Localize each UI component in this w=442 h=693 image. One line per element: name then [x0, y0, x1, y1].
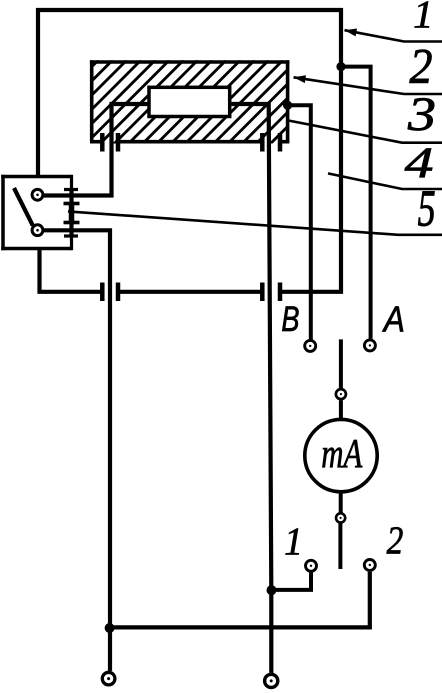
switch box S: top edge: [1, 175, 71, 179]
svg-text:5: 5: [418, 179, 436, 237]
connector plug 5: bottom bar: [64, 221, 80, 225]
callout arrow 1: [345, 29, 358, 37]
heater block 2: hatched body: [14, 60, 368, 145]
wire: right electrode from sample down to bottom terminal: [232, 104, 272, 674]
svg-text:A: A: [382, 300, 405, 340]
junction dot bottom left: [105, 623, 115, 633]
wire: into meter: [339, 400, 343, 419]
svg-text:1: 1: [413, 0, 433, 36]
switch lever: [14, 188, 33, 226]
svg-text:2: 2: [387, 519, 404, 562]
wire: terminal 2 down and bottom horizontal: [110, 572, 370, 628]
callout leader 1: [345, 30, 442, 41]
heater block 2: left edge: [90, 60, 94, 141]
wire: branch from frame to terminal A: [341, 67, 371, 339]
block bottom feedthrough tick, left pair right plate: [116, 133, 121, 152]
switch lower contact: [32, 225, 43, 236]
wire: main loop top (left vertical, top horizontal, right vertical down to bottom bus corner): [38, 10, 341, 292]
heater block 2: bottom edge middle segment: [120, 140, 260, 144]
connector tick left pair, right plate: [116, 283, 121, 302]
svg-text:2: 2: [410, 39, 433, 94]
connector tick right pair, right plate: [278, 283, 283, 302]
heater block 2: right edge: [286, 60, 290, 141]
wire: left electrode from sample through switch upper contact: [44, 104, 149, 196]
switch box S: right edge top piece: [70, 175, 73, 190]
callout leader 5: [68, 211, 442, 234]
switch box S: bottom edge: [1, 247, 71, 251]
svg-text:1: 1: [284, 520, 303, 563]
terminal B circle: [305, 340, 316, 351]
bottom left terminal: [102, 672, 115, 685]
milliammeter mA: [305, 419, 377, 491]
wire: milliammeter probe upper: [339, 339, 343, 388]
switch box S: feedthrough tick lower: [69, 223, 73, 237]
callout arrow 2: [294, 75, 307, 83]
connector tick left pair, left plate: [100, 283, 105, 302]
wire: switch lower contact down to bottom-left terminal: [44, 230, 110, 671]
heater block 2: top edge: [90, 60, 290, 64]
svg-text:mA: mA: [321, 431, 363, 476]
switch box S: feedthrough tick upper: [69, 190, 73, 204]
wire: branch from block edge to terminal B: [288, 105, 311, 339]
junction dot on block right edge: [283, 101, 292, 110]
junction dot terminal1 branch: [267, 585, 277, 595]
switch upper contact: [32, 189, 43, 200]
callout leader 4: [328, 173, 442, 189]
sample 3: white rectangle inside block: [149, 87, 230, 116]
connector plug 5: stem: [69, 204, 75, 223]
probe connector circle lower: [336, 513, 345, 522]
wire: bottom bus middle segment: [120, 290, 262, 294]
block bottom feedthrough tick, left pair left plate: [100, 133, 105, 152]
junction dot on right frame wire: [336, 62, 345, 71]
switch box S: right edge bar upper: [64, 188, 78, 191]
wire: out of meter: [339, 492, 343, 513]
block bottom feedthrough tick, right pair left plate: [260, 133, 265, 152]
svg-text:B: B: [281, 298, 299, 338]
terminal 2 circle: [364, 560, 375, 571]
connector tick right pair, left plate: [260, 283, 265, 302]
bottom right terminal: [265, 674, 278, 687]
terminal 1 circle: [306, 560, 317, 571]
wire: terminal 1 to left electrode wire: [273, 573, 312, 590]
heater block 2: bottom edge left stub: [90, 140, 100, 144]
probe connector circle upper: [336, 389, 346, 399]
callout leader 2: [294, 77, 442, 94]
wire: bottom bus left segment with corner up to switch box: [40, 249, 102, 292]
switch box S: right edge bar lower: [64, 234, 78, 237]
callout leader 3: [289, 121, 442, 143]
svg-text:3: 3: [407, 89, 436, 141]
switch box S: right edge bottom piece: [70, 236, 73, 250]
wire: probe free end: [338, 523, 342, 569]
block bottom feedthrough tick, right pair right plate: [278, 133, 283, 152]
heater block 2: bottom edge right stub: [282, 140, 289, 144]
connector plug 5: top bar: [64, 202, 80, 206]
switch box S: left edge: [1, 175, 5, 250]
terminal A circle: [364, 340, 375, 351]
